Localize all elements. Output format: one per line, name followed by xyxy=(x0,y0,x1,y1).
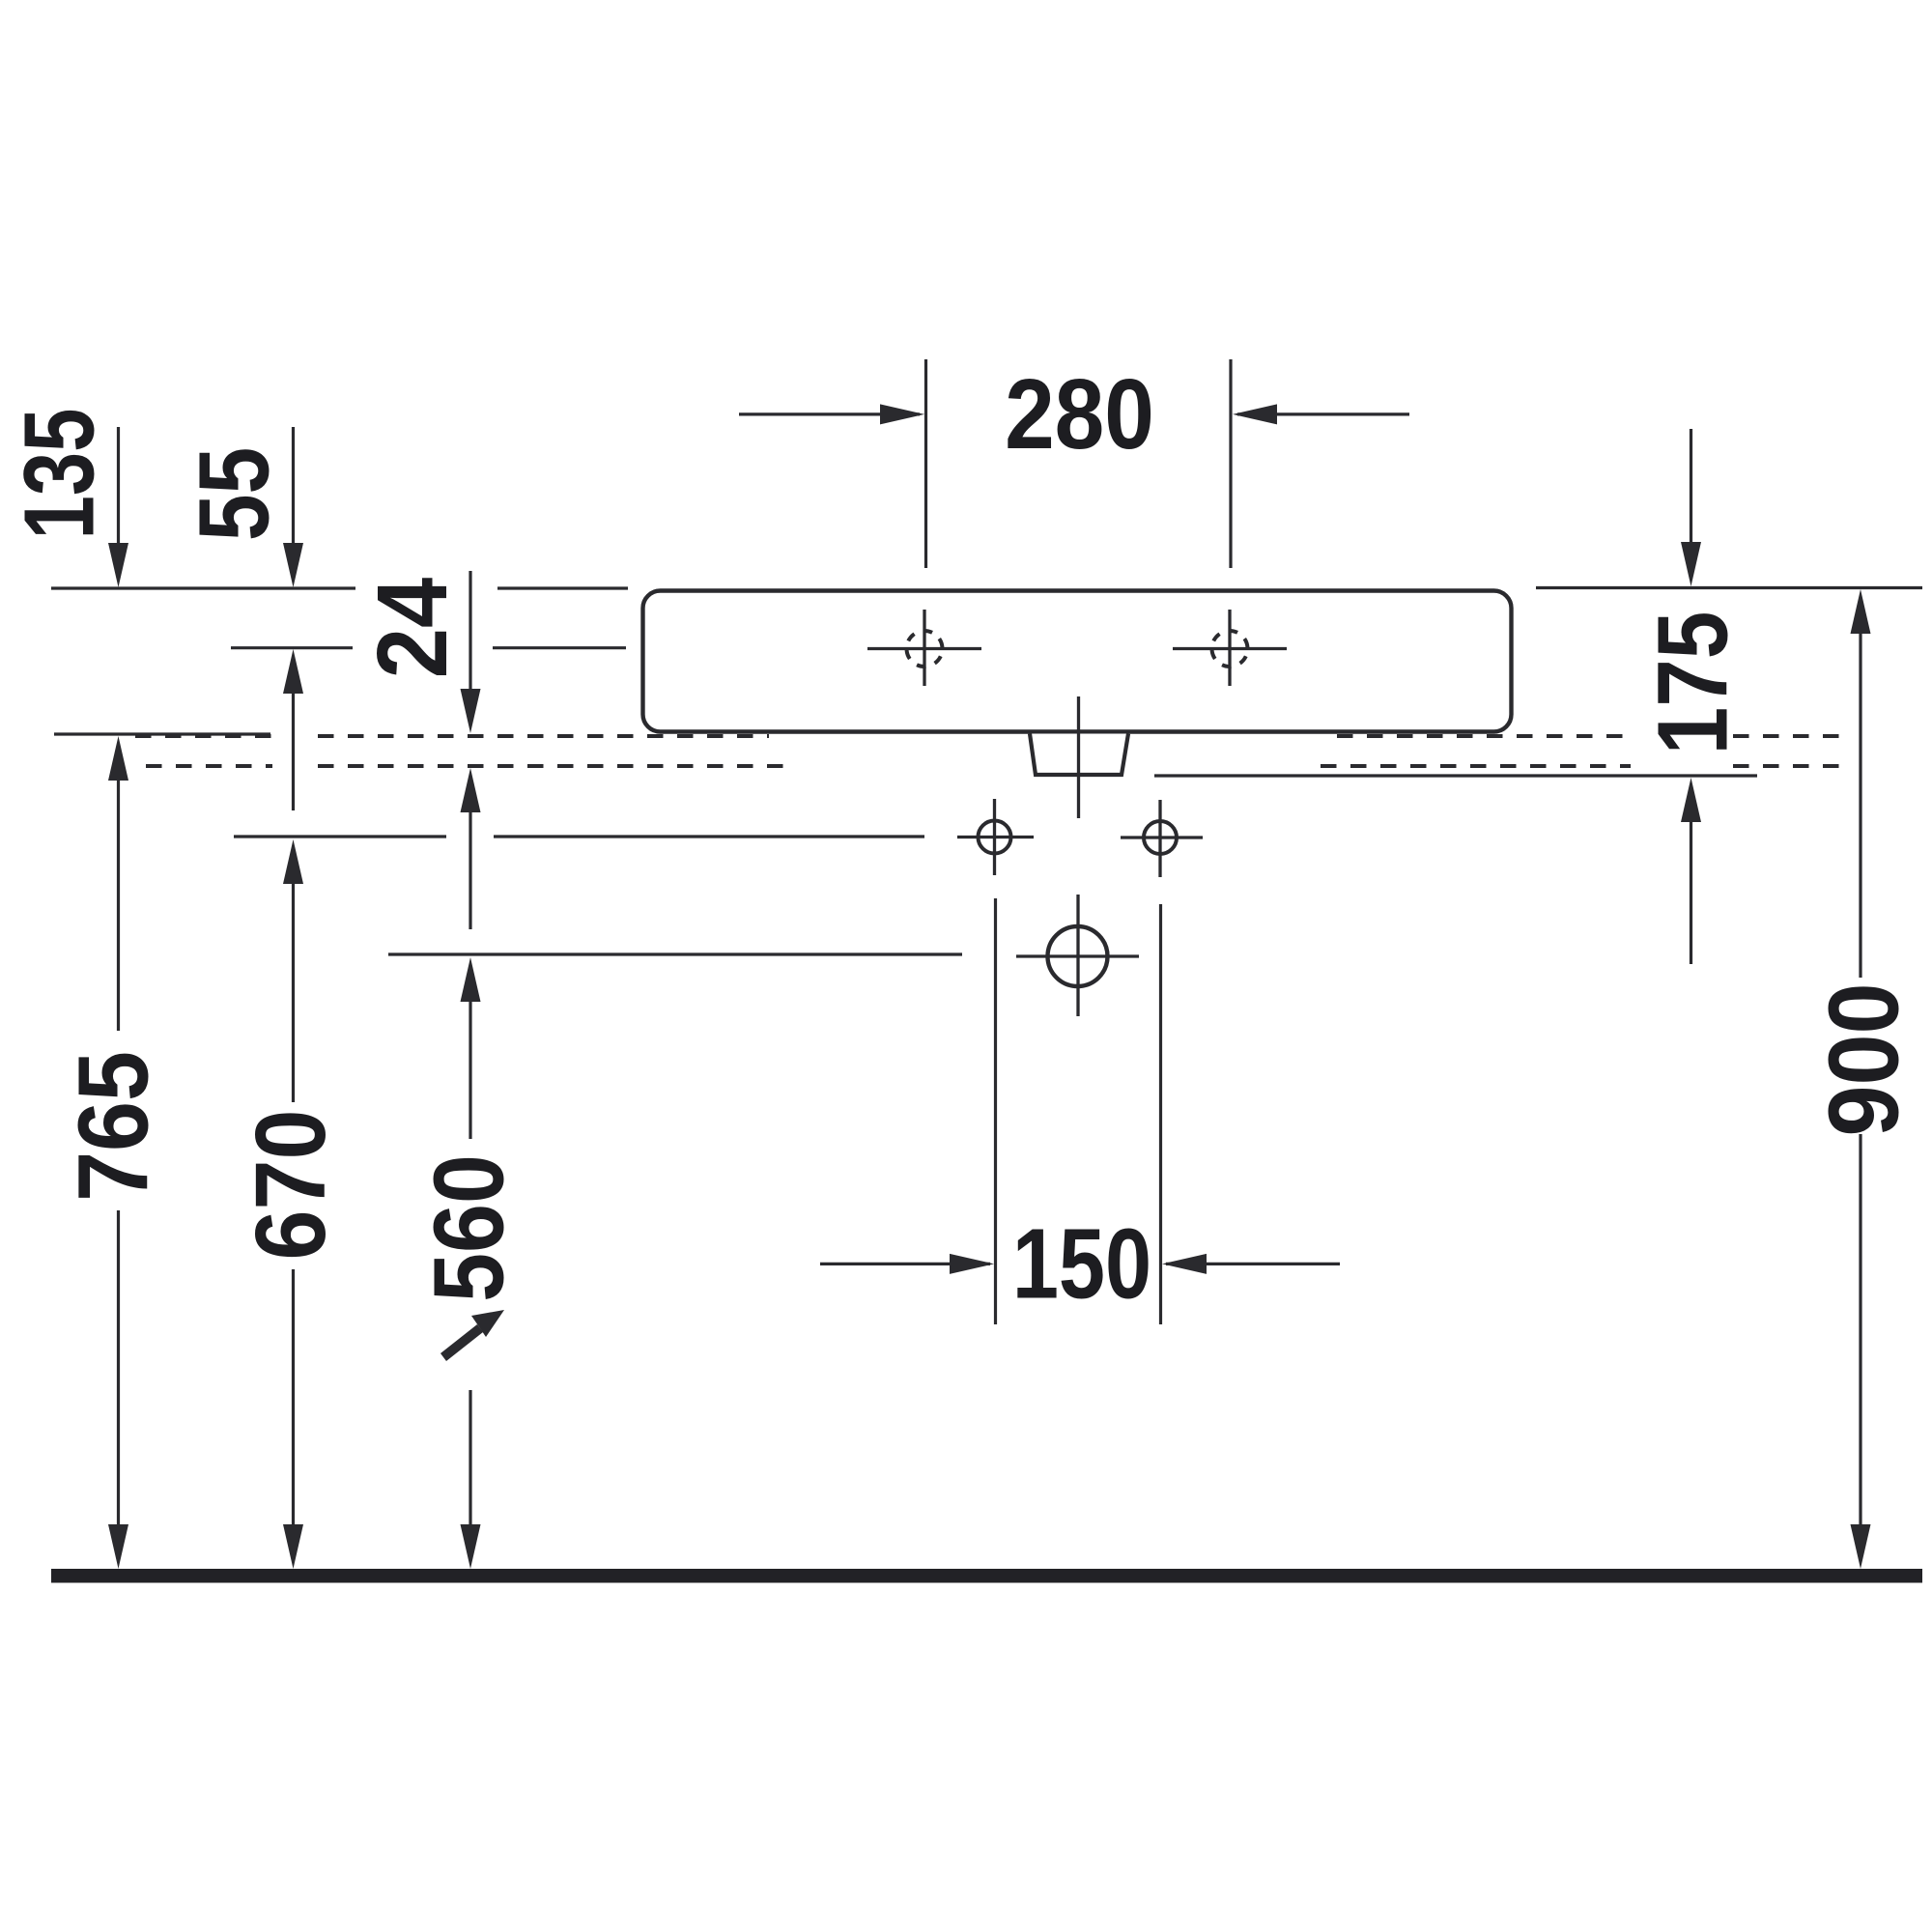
dimension 150 left arrow line xyxy=(820,1263,990,1265)
siphon bottom reference line right xyxy=(1154,774,1757,777)
dimension 24/560 shared line segment xyxy=(469,811,471,929)
dimension 24 line upper xyxy=(469,571,471,690)
supply hole right crosshair xyxy=(1121,800,1203,877)
drain outlet circle xyxy=(1048,926,1108,986)
dimension 55 down arrowhead xyxy=(283,543,303,587)
dimension 150 left arrowhead xyxy=(950,1254,994,1274)
left tap hole dashed circle xyxy=(900,625,948,672)
dimension 150 right arrow line xyxy=(1166,1263,1340,1265)
dimension 560 upper line xyxy=(469,1001,471,1139)
dimension 765 upper line xyxy=(117,780,120,1031)
dimension 900 up arrowhead at wall line xyxy=(1851,589,1871,634)
slope arrow symbol xyxy=(440,1310,504,1361)
dimension 670 upper line A xyxy=(292,693,295,810)
floor line xyxy=(51,1569,1922,1583)
drain trapezoid below basin xyxy=(1030,734,1128,776)
svg-text:55: 55 xyxy=(179,447,290,541)
dimension 24 lower up arrowhead at second dashed line xyxy=(461,768,481,812)
dimension 55 line upper xyxy=(292,427,295,544)
dimension 150 left extension line xyxy=(994,898,997,1324)
solid reference line at dashed wall level xyxy=(54,732,270,735)
dimension 280 left extension line xyxy=(924,359,927,568)
dimension 560 lower line xyxy=(469,1390,471,1526)
dimension 900 upper line xyxy=(1859,633,1861,978)
svg-text:150: 150 xyxy=(1012,1208,1151,1320)
dimension 175 upper line xyxy=(1690,429,1692,543)
supply centerline left segment xyxy=(234,835,446,838)
right tap hole crosshair xyxy=(1173,610,1287,686)
dimension 24 down arrowhead xyxy=(461,689,481,733)
tap hole centerline left segment xyxy=(231,646,353,649)
wall line upper reference left segment xyxy=(51,586,355,589)
dimension 670 up arrowhead at supply line xyxy=(283,839,303,884)
dimension 670 upper line B xyxy=(292,883,295,1102)
supply hole left circle xyxy=(979,821,1011,854)
svg-text:135: 135 xyxy=(3,409,114,540)
supply hole left crosshair xyxy=(957,799,1034,875)
dimension 150 right extension line xyxy=(1159,904,1162,1324)
dimension 670 lower line xyxy=(292,1269,295,1526)
dimension 175 down arrowhead at wall line xyxy=(1681,542,1701,586)
dimension 765 down arrowhead at floor xyxy=(108,1524,128,1569)
svg-text:560: 560 xyxy=(412,1154,524,1302)
svg-text:24: 24 xyxy=(356,578,468,679)
dimension 280 right extension line xyxy=(1229,359,1232,568)
dimension 560 down arrowhead at floor xyxy=(461,1524,481,1569)
dimension 280 left arrow line xyxy=(739,412,920,415)
dimension 135 down arrowhead xyxy=(108,543,128,587)
svg-text:900: 900 xyxy=(1808,982,1919,1136)
drain vertical centerline through trapezoid xyxy=(1077,696,1080,818)
drain centerline extension left xyxy=(388,952,962,955)
dimension 280 right arrowhead xyxy=(1233,404,1277,424)
dimension 175 lower line xyxy=(1690,821,1692,964)
washbasin body outline xyxy=(643,591,1512,732)
dimension 670 down arrowhead at floor xyxy=(283,1524,303,1569)
svg-text:280: 280 xyxy=(1005,357,1154,469)
dimension 765 up arrowhead at dashed line xyxy=(108,736,128,781)
wall line upper reference right segment xyxy=(1536,586,1922,589)
supply hole right circle xyxy=(1144,821,1177,854)
dimension 150 right arrowhead xyxy=(1162,1254,1207,1274)
first dashed wall line xyxy=(135,734,1839,738)
svg-text:765: 765 xyxy=(57,1051,168,1202)
second dashed wall line xyxy=(146,764,1839,768)
dimension 670 up arrowhead at tap centerline xyxy=(283,649,303,694)
drain outlet crosshair xyxy=(1016,895,1139,1016)
dimension 280 right arrow line xyxy=(1237,412,1409,415)
svg-text:175: 175 xyxy=(1638,611,1748,755)
left tap hole crosshair xyxy=(867,610,981,686)
svg-text:670: 670 xyxy=(235,1109,346,1260)
tap hole centerline middle segment xyxy=(493,646,626,649)
dimension 175 up arrowhead at siphon line xyxy=(1681,778,1701,822)
dimension 135 line upper xyxy=(117,427,120,544)
right tap hole dashed circle xyxy=(1206,625,1253,672)
dimension 560 up arrowhead at drain line xyxy=(461,957,481,1002)
dimension 280 left arrowhead xyxy=(880,404,924,424)
dimension 900 lower line xyxy=(1859,1134,1861,1526)
dimension 765 lower line xyxy=(117,1210,120,1526)
supply centerline segment xyxy=(494,835,924,838)
wall line upper reference middle segment xyxy=(497,586,628,589)
dimension 900 down arrowhead at floor xyxy=(1851,1524,1871,1569)
